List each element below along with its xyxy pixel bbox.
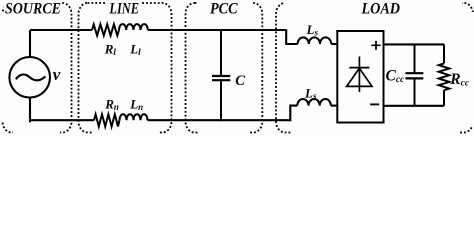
wire: top bus to load [148,29,286,31]
wire: bottom step up [290,106,297,122]
svg-text:SOURCE: SOURCE [5,0,61,17]
wire: bottom into rectifier [331,105,338,107]
wire: dc bus bottom [384,105,445,107]
label Ll [129,42,141,58]
resistor Rl [92,24,119,35]
wire: top step down [286,29,297,44]
enclosure box LOAD [276,3,473,133]
label PCC [197,0,253,17]
wire: top into rectifier [331,43,337,45]
label Ls bottom [304,85,317,101]
label LINE [107,0,141,17]
label LOAD [284,0,462,17]
resistor Rn [94,114,120,126]
label - [370,103,379,105]
label Rcc [449,71,470,89]
label Ccc [386,68,406,86]
label SOURCE [4,0,62,17]
svg-text:PCC: PCC [210,0,238,17]
enclosure box LINE [79,3,172,133]
wire: bottom bus left [30,119,94,121]
wire: top bus left [30,29,92,31]
svg-text:LINE: LINE [109,0,139,17]
inductor Ln [120,114,148,120]
label C [235,73,245,89]
svg-text:v: v [53,65,61,84]
label Rl [104,42,117,58]
background (scan fade of bottom dashed edges) [0,12,474,134]
inductor Ll [119,24,148,30]
svg-text:C: C [235,73,245,89]
enclosure box PCC [186,3,263,133]
wire: source top lead [29,30,31,57]
label Rn [104,96,119,112]
ac source v [9,57,50,98]
label Ln [129,96,143,112]
svg-text:LOAD: LOAD [361,0,400,17]
inductor Ls top [298,37,332,44]
capacitor C [212,29,230,121]
label v [53,65,61,84]
capacitor Ccc [406,44,424,105]
inductor Ls bottom [297,99,331,106]
label Ls top [306,22,319,38]
wire: dc bus top [384,43,445,45]
diode D [347,57,372,93]
enclosure box SOURCE [3,3,72,133]
wire: bottom bus to load [148,119,291,121]
resistor Rcc [439,44,450,105]
wire: source bottom lead [30,97,31,121]
label + [371,41,380,50]
rectifier bridge box [337,31,383,123]
